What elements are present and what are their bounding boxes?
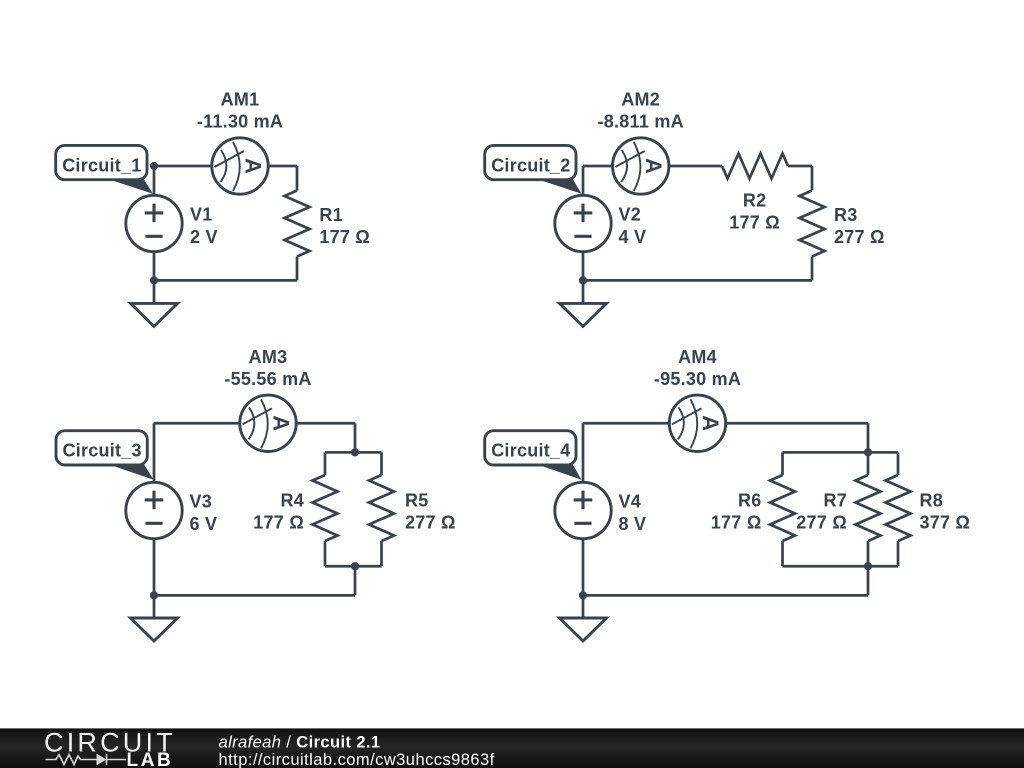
ground circuit 1 xyxy=(131,303,178,326)
wire lower lead R7 xyxy=(867,541,870,566)
svg-text:Circuit_3: Circuit_3 xyxy=(63,441,142,461)
wire upper lead R7 xyxy=(867,452,870,475)
resistor R3 xyxy=(800,191,825,257)
svg-text:277 Ω: 277 Ω xyxy=(796,513,847,533)
wire upper lead R8 xyxy=(897,452,900,475)
node label Circuit_2 callout xyxy=(535,178,582,194)
svg-text:R7: R7 xyxy=(823,491,847,511)
svg-text:2 V: 2 V xyxy=(190,227,218,247)
svg-text:R2: R2 xyxy=(743,191,767,211)
svg-text:V2: V2 xyxy=(619,205,642,225)
wire lower lead R8 xyxy=(897,541,900,566)
svg-text:R4: R4 xyxy=(280,491,304,511)
node label Circuit_1 callout xyxy=(106,178,153,194)
svg-text:8 V: 8 V xyxy=(619,514,647,534)
svg-text:-8.811 mA: -8.811 mA xyxy=(598,112,684,132)
wire parallel block to bottom circuit 4 xyxy=(867,566,870,595)
svg-text:Circuit_2: Circuit_2 xyxy=(491,155,570,175)
wire upper lead R5 xyxy=(380,452,383,475)
junction ground node circuit 3 xyxy=(150,591,158,599)
logo resistor-diode line xyxy=(46,754,127,765)
wire lower lead R6 xyxy=(781,541,784,566)
svg-text:AM2: AM2 xyxy=(621,90,660,110)
wire bottom circuit 2 xyxy=(583,279,812,282)
wire bottom bar parallel circuit 3 xyxy=(325,565,382,568)
svg-text:LAB: LAB xyxy=(127,750,174,768)
wire down to parallel node circuit 3 xyxy=(354,423,357,452)
resistor R4 xyxy=(313,475,338,541)
resistor R6 xyxy=(770,475,795,541)
svg-text:A: A xyxy=(241,158,266,174)
wire upper lead R4 xyxy=(324,452,327,475)
junction bottom parallel node circuit 4 xyxy=(864,562,872,570)
wire bottom circuit 4 xyxy=(583,594,868,597)
wire top circuit 4 xyxy=(583,422,868,425)
wire upper lead R3 xyxy=(811,166,814,191)
wire vertical circuit 2 xyxy=(582,166,585,303)
ground circuit 2 xyxy=(560,303,607,326)
svg-text:R1: R1 xyxy=(319,205,343,225)
wire down to parallel node circuit 4 xyxy=(867,423,870,452)
wire lower lead R5 xyxy=(380,541,383,566)
wire R2 to corner circuit 2 xyxy=(788,165,812,168)
svg-text:R5: R5 xyxy=(405,491,429,511)
svg-text:377 Ω: 377 Ω xyxy=(920,513,971,533)
svg-text:177 Ω: 177 Ω xyxy=(319,227,370,247)
resistor R5 xyxy=(369,475,394,541)
ground circuit 3 xyxy=(131,618,178,641)
node label Circuit_3 callout xyxy=(106,464,154,480)
svg-text:177 Ω: 177 Ω xyxy=(729,212,780,232)
node label Circuit_4 callout xyxy=(535,464,582,480)
svg-text:alrafeah / Circuit 2.1: alrafeah / Circuit 2.1 xyxy=(219,733,381,751)
svg-text:V3: V3 xyxy=(190,492,213,512)
svg-text:-11.30 mA: -11.30 mA xyxy=(197,112,283,132)
svg-text:-95.30 mA: -95.30 mA xyxy=(654,369,741,389)
resistor R1 xyxy=(285,191,310,257)
junction ground node circuit 1 xyxy=(150,276,158,284)
resistor R2 xyxy=(722,154,788,179)
svg-text:A: A xyxy=(698,415,723,431)
svg-text:V4: V4 xyxy=(619,492,642,512)
wire vertical circuit 4 xyxy=(582,423,585,618)
wire parallel block to bottom circuit 3 xyxy=(354,566,357,595)
svg-text:R3: R3 xyxy=(834,205,858,225)
svg-text:R8: R8 xyxy=(920,491,944,511)
svg-text:R6: R6 xyxy=(738,491,762,511)
svg-text:177 Ω: 177 Ω xyxy=(253,513,304,533)
node N1 top-left circuit 1 wire vertical xyxy=(153,166,156,303)
svg-text:6 V: 6 V xyxy=(190,514,218,534)
svg-text:4 V: 4 V xyxy=(619,227,647,247)
ammeter AM2 xyxy=(613,138,669,194)
wire top circuit 2 xyxy=(583,165,722,168)
wire top bar parallel circuit 3 xyxy=(325,451,382,454)
wire bottom circuit 1 xyxy=(154,279,297,282)
junction ground node circuit 2 xyxy=(579,276,587,284)
wire lower lead R4 xyxy=(324,541,327,566)
junction bottom parallel node circuit 3 xyxy=(351,562,359,570)
voltage source V4 xyxy=(555,482,611,538)
svg-text:277 Ω: 277 Ω xyxy=(405,513,456,533)
svg-text:http://circuitlab.com/cw3uhccs: http://circuitlab.com/cw3uhccs9863f xyxy=(219,751,495,768)
wire right circuit 1 upper lead R1 xyxy=(296,166,299,191)
svg-text:277 Ω: 277 Ω xyxy=(834,227,885,247)
svg-text:A: A xyxy=(269,415,294,431)
ground circuit 4 xyxy=(560,618,607,641)
wire lower lead R3 xyxy=(811,257,814,281)
wire top circuit 3 xyxy=(154,422,355,425)
wire upper lead R6 xyxy=(781,452,784,475)
junction top parallel node circuit 4 xyxy=(864,448,872,456)
ammeter AM1 xyxy=(212,138,268,194)
ammeter AM4 xyxy=(669,395,725,451)
svg-text:AM1: AM1 xyxy=(221,90,260,110)
wire top circuit 1 xyxy=(154,165,297,168)
svg-text:V1: V1 xyxy=(190,205,213,225)
svg-text:A: A xyxy=(641,158,666,174)
svg-text:-55.56 mA: -55.56 mA xyxy=(224,369,311,389)
resistor R7 xyxy=(856,475,881,541)
wire top bar parallel circuit 4 xyxy=(783,451,899,454)
wire bottom circuit 3 xyxy=(154,594,355,597)
ammeter AM3 xyxy=(240,395,296,451)
svg-text:177 Ω: 177 Ω xyxy=(711,513,762,533)
svg-text:Circuit_4: Circuit_4 xyxy=(491,441,570,461)
footer bar xyxy=(0,728,1024,768)
voltage source V3 xyxy=(126,482,182,538)
junction top parallel node circuit 3 xyxy=(351,448,359,456)
voltage source V2 xyxy=(555,195,611,251)
svg-text:Circuit_1: Circuit_1 xyxy=(62,155,141,175)
svg-text:AM4: AM4 xyxy=(678,347,717,367)
junction node A circuit 1 xyxy=(150,162,158,170)
junction ground node circuit 4 xyxy=(579,591,587,599)
wire vertical circuit 3 xyxy=(153,423,156,618)
wire bottom bar parallel circuit 4 xyxy=(783,565,899,568)
resistor R8 xyxy=(886,475,911,541)
voltage source V1 xyxy=(126,195,182,251)
wire lower lead R1 xyxy=(296,257,299,281)
svg-text:AM3: AM3 xyxy=(249,347,288,367)
